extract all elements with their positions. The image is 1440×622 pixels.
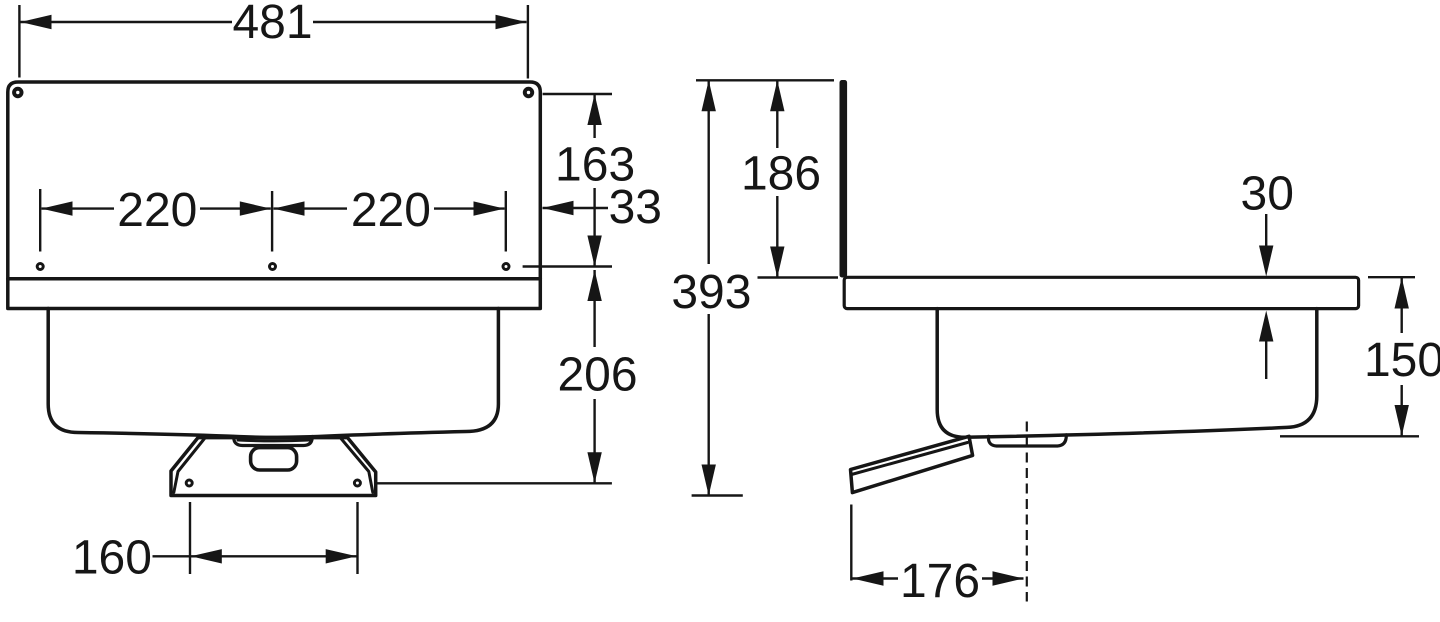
dim 481: dimension line <box>21 21 233 23</box>
arrow 393 top <box>702 80 716 111</box>
svg-text:150: 150 <box>1364 334 1440 387</box>
dim 150: dimension line <box>1400 278 1402 334</box>
bracket hole left <box>186 480 192 486</box>
dim 220 left: dimension line <box>42 207 115 209</box>
dim 160: leader + dimension line <box>153 555 357 557</box>
arrow 393 bottom <box>702 465 716 496</box>
dim 206: dimension line <box>593 270 595 347</box>
arrow 186 bottom <box>770 247 784 278</box>
dim 220 right: dimension line <box>274 207 348 209</box>
arrow 220R right <box>474 201 505 215</box>
back panel outline (front view) <box>8 82 541 309</box>
bowl profile (side view) <box>937 309 1317 438</box>
svg-text:33: 33 <box>609 181 662 234</box>
support bracket (side view) <box>851 436 973 492</box>
svg-text:160: 160 <box>72 532 152 585</box>
drain dish (side view) <box>988 435 1066 446</box>
dim 220 right: extension line <box>505 191 507 252</box>
arrow 186 top <box>770 80 784 111</box>
screw hole bottom-middle <box>270 264 276 270</box>
bracket left fold line <box>174 439 205 493</box>
dim 30: lower shaft <box>1265 340 1267 379</box>
svg-text:220: 220 <box>351 184 431 237</box>
panel bottom / rim top line (front view) <box>8 277 541 281</box>
svg-text:186: 186 <box>741 148 821 201</box>
dim 176: dimension line <box>853 577 899 579</box>
arrow 30 down <box>1259 246 1273 277</box>
arrow 150 top <box>1395 278 1409 309</box>
screw hole bottom-right <box>503 264 509 270</box>
arrow 176 left <box>853 571 884 585</box>
svg-text:393: 393 <box>671 266 751 319</box>
bracket hole right <box>354 480 360 486</box>
arrow 163 top <box>587 94 601 125</box>
bracket right fold line <box>341 439 373 493</box>
screw hole top-right <box>525 89 532 96</box>
svg-text:176: 176 <box>900 555 980 608</box>
arrow 163 bottom <box>587 236 601 267</box>
dim 206: extension line (bracket bottom) <box>376 482 612 484</box>
arrow 176 right <box>993 571 1024 585</box>
screw hole top-left <box>14 89 21 96</box>
arrow 160 left <box>191 549 222 563</box>
dim 163: extension lines <box>543 93 612 95</box>
arrow 206 top <box>587 270 601 301</box>
bracket fold line (side view) <box>852 443 968 475</box>
dim 186: dimension line <box>776 80 778 148</box>
arrow 206 bottom <box>587 452 601 483</box>
dim 393: dimension line <box>708 80 710 264</box>
dim 176: extension line <box>850 505 852 581</box>
arrow 30 up <box>1259 311 1273 342</box>
svg-text:481: 481 <box>232 0 312 49</box>
dim 150: extension lines <box>1368 276 1415 278</box>
bowl (front view) <box>48 309 498 438</box>
dim 33: leader line <box>543 207 609 209</box>
arrow 220L right <box>240 201 271 215</box>
dim 160: extension lines <box>189 502 191 574</box>
drain flange channel (front view) <box>234 437 313 446</box>
drain centerline (dashed) <box>1026 422 1028 602</box>
drain flange top line (front view) <box>238 439 309 443</box>
dim 220 left: extension lines <box>39 189 41 252</box>
arrow 33 leader <box>543 201 574 215</box>
arrow 150 bottom <box>1395 405 1409 436</box>
arrow 481 left <box>21 15 52 29</box>
arrow 220R left <box>274 201 305 215</box>
dim 186: extension line <box>758 276 839 278</box>
dim 30: upper shaft <box>1265 214 1267 247</box>
arrow 160 right <box>326 549 357 563</box>
wall panel edge-on (side view) <box>840 80 848 278</box>
dim 393: extension lines <box>696 79 834 81</box>
mounting bracket (front view) <box>171 438 376 496</box>
screw hole bottom-left <box>37 264 43 270</box>
dim 163: dimension line <box>593 94 595 138</box>
dim 481: extension lines <box>18 5 20 78</box>
svg-text:220: 220 <box>117 184 197 237</box>
arrow 220L left <box>42 201 73 215</box>
rim / shelf (side view) <box>844 277 1358 308</box>
drain plug (front view) <box>251 448 297 470</box>
arrow 481 right <box>496 15 527 29</box>
svg-text:206: 206 <box>557 349 637 402</box>
svg-text:30: 30 <box>1241 168 1294 221</box>
